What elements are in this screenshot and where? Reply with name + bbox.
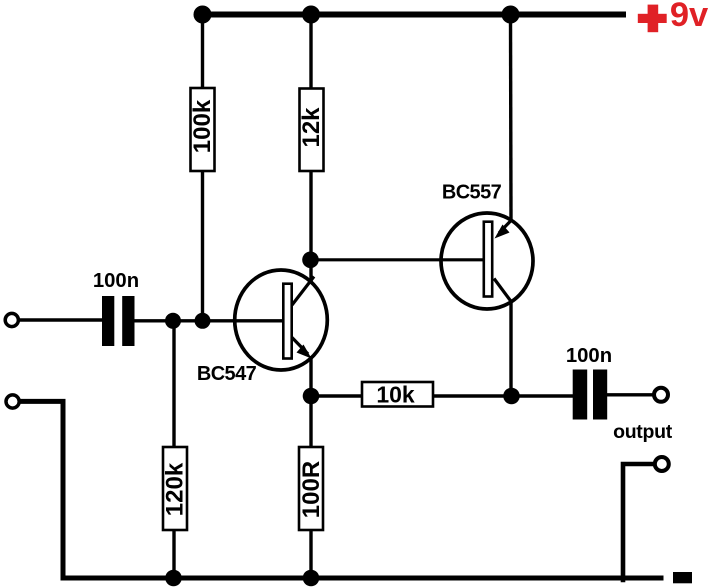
svg-text:output: output <box>613 421 673 443</box>
power label +9v <box>638 0 709 34</box>
wire Q1 collector node to Q2 base <box>311 258 485 261</box>
wire emitter node to R5 10k <box>311 394 362 397</box>
wire C2 to output terminal <box>607 393 654 396</box>
svg-text:9v: 9v <box>670 0 709 34</box>
resistor R1 100k <box>189 88 216 171</box>
svg-text:100n: 100n <box>566 345 612 367</box>
wire from R1 100k down to input node <box>201 171 204 321</box>
wire R3 120k to ground rail <box>172 530 175 578</box>
node ground junction left <box>165 570 182 587</box>
node collector junction Q1/Q2 base <box>302 251 319 268</box>
node ground junction right <box>303 570 320 587</box>
node output junction <box>503 388 520 405</box>
node top rail middle junction <box>302 6 320 24</box>
wire emitter node down to R4 100R <box>309 396 312 447</box>
transistor Q2 BC557 <box>441 182 533 310</box>
svg-text:100k: 100k <box>189 99 216 153</box>
wire from top rail to R2 12k <box>309 15 312 91</box>
svg-text:120k: 120k <box>162 462 189 516</box>
svg-text:12k: 12k <box>298 107 325 148</box>
wire Q2 collector down to output node <box>509 301 512 396</box>
svg-text:100n: 100n <box>93 270 139 292</box>
node top rail left junction <box>194 6 212 24</box>
node top rail right junction <box>502 6 520 24</box>
wire output terminal 2 to ground drop <box>623 464 655 582</box>
resistor R3 120k <box>162 447 189 530</box>
wire C1 to base of Q1 <box>135 319 284 322</box>
wire top rail to Q2 emitter <box>509 15 513 221</box>
svg-text:BC547: BC547 <box>197 363 257 385</box>
wire top +9v rail <box>196 12 626 18</box>
output terminal 2 <box>655 457 669 471</box>
svg-text:100R: 100R <box>298 461 325 518</box>
output terminal 1 <box>654 388 668 402</box>
input terminal 2 <box>6 395 19 408</box>
node base junction <box>195 313 211 329</box>
wire ground rail stub right <box>673 572 692 583</box>
svg-text:10k: 10k <box>376 382 415 408</box>
node input bias junction <box>165 313 181 329</box>
wire R5 10k to output node <box>433 394 573 397</box>
wire bottom ground rail <box>61 576 664 581</box>
input terminal 1 <box>5 313 18 326</box>
capacitor C1 100n <box>93 270 139 346</box>
resistor R5 10k <box>362 382 433 408</box>
wire from R2 12k down to collector node <box>309 171 312 283</box>
wire Q1 emitter to emitter node <box>309 356 312 396</box>
resistor R2 12k <box>298 89 325 172</box>
transistor Q1 BC547 <box>197 270 327 385</box>
node emitter/feedback junction <box>303 388 320 405</box>
wire R4 100R to ground rail <box>309 530 312 578</box>
svg-text:BC557: BC557 <box>442 182 502 204</box>
wire from top rail to R1 100k <box>201 15 204 90</box>
capacitor C2 100n <box>566 345 612 420</box>
wire bias node down to R3 120k <box>172 321 175 447</box>
resistor R4 100R <box>298 447 325 530</box>
wire input terminal 2 to ground drop <box>20 401 64 580</box>
wire input terminal to C1 <box>19 318 104 321</box>
